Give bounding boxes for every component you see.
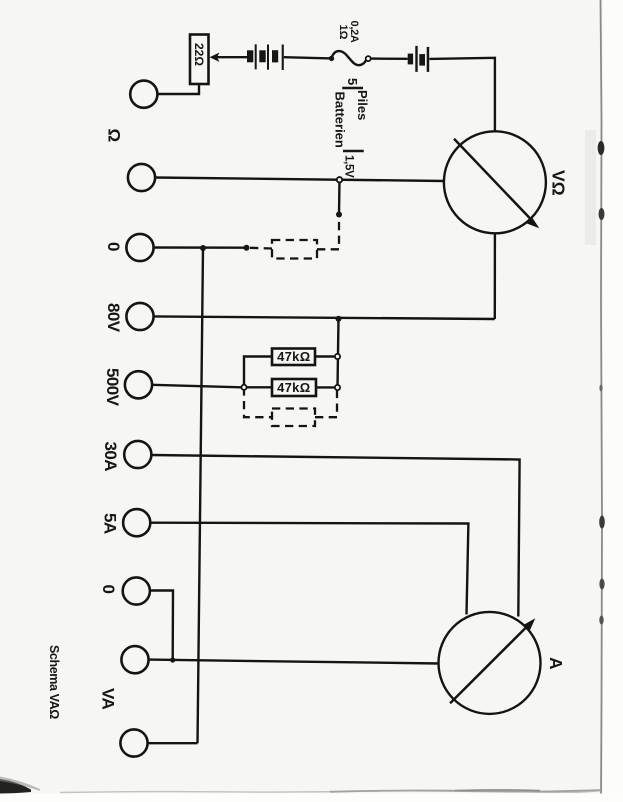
svg-text:0: 0	[99, 585, 118, 594]
wire 80V row	[154, 316, 495, 319]
scanner white strip below page bottom edge	[0, 794, 623, 802]
dashed wire left of 500V spare box	[244, 387, 272, 417]
edge tick 5	[599, 385, 602, 392]
resistor R1 47k box	[272, 349, 315, 366]
svg-text:22Ω: 22Ω	[192, 43, 206, 66]
edge blob 4	[599, 579, 604, 590]
svg-text:VΩ: VΩ	[549, 170, 569, 196]
terminal T10 (bottom)	[120, 729, 147, 756]
edge blob 3	[599, 516, 605, 529]
edge blob 1	[598, 141, 605, 155]
wire battery1 to fuse	[284, 57, 332, 58]
battery B2 cell1 short plate	[408, 54, 413, 65]
dashed spare resistor box (500V row)	[272, 409, 315, 427]
dashed wire left of spare box (0 row)	[250, 247, 272, 250]
terminal T4 (80V)	[126, 303, 153, 330]
junction dot fuse left	[329, 56, 334, 61]
junction dot 80V row / rail	[336, 316, 342, 322]
svg-text:47kΩ: 47kΩ	[277, 349, 310, 364]
wire T10 to main vertical bus	[148, 742, 198, 744]
bottom-left corner blob	[0, 779, 31, 794]
svg-text:A: A	[546, 657, 566, 670]
wire T8 to T9 row connector	[150, 591, 173, 660]
battery bracket bar 1	[342, 87, 363, 90]
edge blob 2	[599, 208, 605, 220]
battery B1 cell1 short plate	[247, 50, 253, 62]
page bottom edge line	[60, 790, 600, 792]
open node R1 right / rail	[335, 354, 340, 359]
dashed spare resistor box (0 row)	[272, 240, 317, 259]
svg-text:30A: 30A	[101, 442, 120, 472]
svg-text:500V: 500V	[103, 368, 122, 407]
terminal T7 (5A)	[123, 509, 150, 536]
resistor R2 47k left lead	[247, 386, 272, 388]
svg-text:0: 0	[104, 242, 123, 251]
wire T1 to 22ohm resistor	[157, 84, 199, 94]
dashed wire right of 500V spare box	[315, 388, 337, 418]
resistor R1 47k right lead	[315, 355, 334, 357]
svg-text:Batterien: Batterien	[333, 92, 348, 148]
wire 30A row to meter A	[151, 455, 519, 617]
faint scan streak right of meter	[585, 130, 596, 245]
battery B1 cell2 long plate	[267, 45, 269, 70]
junction dot T8 connector / T9 row	[170, 657, 175, 662]
battery B1 cell1 long plate	[255, 44, 257, 69]
svg-text:Piles: Piles	[355, 90, 370, 120]
terminal T1 (ohms, top)	[130, 81, 157, 108]
battery B1 cell3 short plate	[272, 50, 278, 62]
svg-text:Ω: Ω	[105, 129, 124, 143]
open node T2 row junction	[337, 177, 342, 182]
junction dot dashed/solid on vertical link	[336, 212, 342, 218]
stub end dot on T3 row	[244, 245, 250, 251]
wire arrow line from battery to 22ohm	[216, 56, 247, 58]
terminal T9 (VA)	[121, 646, 148, 673]
meter A body	[439, 612, 541, 714]
svg-text:5: 5	[345, 78, 360, 85]
meter VΩ body	[444, 131, 546, 233]
svg-text:1,5V: 1,5V	[343, 155, 355, 178]
fuse 0.2A squiggle	[331, 51, 366, 65]
wire battery2 to meter VΩ top	[429, 58, 495, 132]
dashed wire right of spare box up to junction	[317, 215, 339, 250]
resistor R2 47k box	[272, 379, 316, 396]
open node R2 right / rail	[335, 385, 340, 390]
battery B2 cell2 short plate	[419, 54, 425, 66]
battery bracket bar 2	[343, 150, 364, 153]
meter VΩ needle arrowhead	[526, 217, 540, 229]
open node 500V row / left rail	[241, 385, 246, 390]
battery B1 cell2 short plate	[259, 50, 265, 62]
svg-text:47kΩ: 47kΩ	[277, 380, 310, 395]
wire 500V row to left rail	[152, 385, 241, 388]
battery B2 cell1 long plate	[415, 46, 417, 72]
rail from 80V junction down to resistors	[338, 319, 339, 388]
page right edge line	[601, 0, 603, 802]
terminal T8 (0, lower)	[123, 577, 150, 604]
meter VΩ needle	[454, 139, 533, 222]
svg-text:80V: 80V	[104, 303, 123, 333]
left rail 500V row up to R1	[244, 357, 272, 388]
meter A needle arrowhead	[523, 618, 536, 632]
meter A needle	[450, 625, 529, 704]
arrow head into 22ohm resistor	[210, 53, 220, 62]
resistor 22ohm box	[190, 35, 209, 85]
svg-text:Schema VAΩ: Schema VAΩ	[47, 645, 61, 719]
edge blob 6	[599, 616, 603, 625]
wire T9 row to meter A	[149, 660, 440, 664]
scanner white strip right of page edge	[603, 0, 623, 802]
wire meter VΩ bottom to 80V row	[494, 234, 497, 320]
wire solid from T2 row junction down	[338, 180, 341, 215]
battery B1 cell3 long plate	[282, 45, 284, 71]
battery B2 cell2 long plate	[427, 47, 430, 72]
terminal T2	[128, 164, 155, 191]
terminal T5 (500V)	[125, 371, 152, 398]
svg-text:1Ω: 1Ω	[337, 25, 349, 40]
svg-text:VA: VA	[99, 688, 118, 709]
wire fuse to battery2	[371, 57, 408, 60]
terminal T6 (30A)	[124, 441, 151, 468]
wire T2 row to meter VΩ	[155, 178, 444, 182]
resistor R2 47k right lead	[316, 386, 334, 388]
junction dot T3 row / main bus	[200, 245, 206, 251]
wire T3 row to stub dot	[154, 246, 247, 249]
wire 5A row to meter A	[150, 523, 468, 615]
main vertical bus wire	[198, 248, 204, 743]
terminal T3 (0)	[126, 234, 153, 261]
open node fuse right end	[366, 56, 371, 61]
svg-text:5A: 5A	[100, 513, 119, 534]
